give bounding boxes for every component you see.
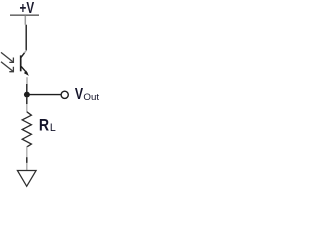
wire: emitter to output node <box>26 84 28 92</box>
ground triangle <box>17 171 36 187</box>
ground stub (gray) <box>26 163 28 170</box>
light arrow 2 head <box>9 67 13 72</box>
svg-text:V: V <box>75 86 83 103</box>
svg-text:R: R <box>39 117 49 135</box>
light arrow 1 shaft <box>1 52 13 61</box>
phototransistor Q1 collector pin (gray part) <box>24 50 26 53</box>
resistor RL zigzag <box>22 112 31 147</box>
phototransistor Q1 base bar <box>20 55 22 71</box>
phototransistor Q1 emitter arrowhead <box>24 71 29 76</box>
+V power rail bar <box>10 14 39 16</box>
svg-text:Out: Out <box>83 91 99 102</box>
wire: node to output terminal <box>27 94 61 96</box>
resistor RL bottom pin (gray) <box>26 147 28 158</box>
+V power stub <box>24 16 26 25</box>
output terminal circle <box>61 91 68 98</box>
node junction dot <box>24 92 30 98</box>
phototransistor Q1 emitter pin (gray) <box>26 77 28 84</box>
wire: resistor to ground <box>26 157 28 163</box>
light arrow 1 head <box>9 58 13 63</box>
phototransistor Q1 collector diagonal <box>21 53 25 58</box>
phototransistor Q1 emitter diagonal <box>21 67 27 74</box>
light arrow 2 shaft <box>1 62 13 71</box>
wire: node to resistor <box>26 98 28 105</box>
resistor RL top pin (gray) <box>26 104 28 112</box>
wire: supply to collector <box>25 25 27 51</box>
svg-text:L: L <box>50 122 56 134</box>
